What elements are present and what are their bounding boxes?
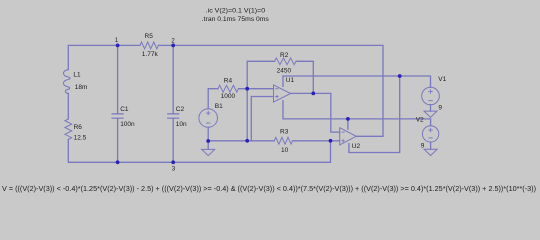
- svg-text:2450: 2450: [277, 68, 292, 75]
- svg-text:9: 9: [421, 143, 425, 150]
- svg-text:C1: C1: [120, 106, 129, 113]
- svg-text:10: 10: [281, 147, 289, 154]
- svg-text:R3: R3: [280, 129, 289, 136]
- svg-text:R4: R4: [224, 77, 233, 84]
- svg-text:1000: 1000: [221, 93, 236, 100]
- svg-text:V2: V2: [416, 117, 424, 124]
- svg-text:U1: U1: [286, 77, 295, 84]
- svg-text:R5: R5: [145, 33, 154, 40]
- svg-text:R6: R6: [74, 124, 83, 131]
- svg-text:18m: 18m: [75, 84, 88, 91]
- svg-text:U2: U2: [352, 143, 361, 150]
- svg-text:V1: V1: [438, 76, 446, 83]
- svg-text:B1: B1: [215, 103, 223, 110]
- svg-text:C2: C2: [176, 106, 185, 113]
- svg-text:.ic V(2)=0.1 V(1)=0: .ic V(2)=0.1 V(1)=0: [206, 7, 266, 14]
- svg-text:.tran 0.1ms 75ms 0ms: .tran 0.1ms 75ms 0ms: [202, 16, 270, 23]
- svg-text:10n: 10n: [176, 121, 187, 128]
- svg-text:9: 9: [438, 104, 442, 111]
- svg-text:V = (((V(2)-V(3)) < -0.4)*(1.2: V = (((V(2)-V(3)) < -0.4)*(1.25*(V(2)-V(…: [2, 186, 536, 193]
- svg-text:1.77k: 1.77k: [142, 51, 159, 58]
- svg-text:R2: R2: [280, 52, 289, 59]
- svg-text:12.5: 12.5: [74, 134, 87, 141]
- svg-text:L1: L1: [73, 72, 81, 79]
- svg-text:100n: 100n: [120, 121, 135, 128]
